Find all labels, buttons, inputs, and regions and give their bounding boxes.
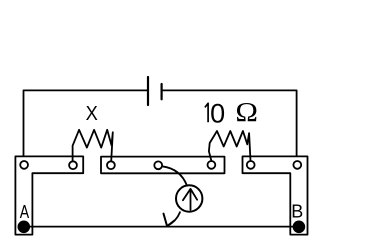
svg-text:B: B	[291, 201, 303, 221]
jockey arrow	[164, 214, 175, 227]
svg-text:X: X	[86, 103, 98, 125]
terminal 7 (right strip right)	[293, 161, 301, 169]
node B	[294, 221, 305, 232]
terminal 3 (middle strip left)	[107, 161, 115, 169]
terminal 2 (left strip right)	[69, 161, 77, 169]
svg-text:0: 0	[210, 98, 225, 128]
strip right copper strip	[243, 156, 308, 234]
galvanometer G	[176, 185, 202, 211]
label 10 Ohm : digit 1	[205, 103, 208, 122]
wire galvanometer to jockey	[168, 212, 180, 225]
resistor X	[73, 130, 113, 161]
wire terminal4 to galvanometer	[162, 166, 187, 185]
resistor R 10 ohm	[209, 131, 251, 161]
svg-text:A: A	[20, 202, 29, 222]
terminal 4 (middle strip centre)	[154, 161, 162, 169]
wire A to B (bridge bottom wire)	[24, 226, 299, 228]
terminal 1 (left strip left)	[20, 161, 28, 169]
wire top-right segment (battery loop right)	[162, 90, 297, 161]
node A	[18, 221, 29, 232]
terminal 6 (right strip left)	[247, 161, 255, 169]
wire top-left segment (battery loop left)	[24, 90, 148, 161]
strip middle copper strip	[101, 157, 225, 174]
strip left copper strip	[15, 156, 83, 234]
svg-text:Ω: Ω	[235, 97, 258, 127]
terminal 5 (middle strip right)	[208, 161, 216, 169]
battery B1	[148, 77, 162, 105]
